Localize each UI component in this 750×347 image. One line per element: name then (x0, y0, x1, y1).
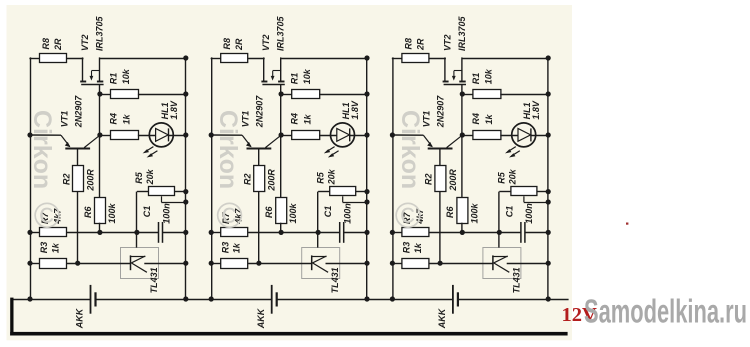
resistor R7 (block 3) (402, 228, 429, 237)
svg-text:R3: R3 (220, 242, 230, 254)
IC U1 TL431 cathode bar (block 1) (130, 255, 132, 270)
IC U1 TL431 package box (block 2) (302, 248, 340, 279)
node: R1-rail junction (block 3) (546, 91, 551, 96)
wire: left rail (block 3) (392, 57, 394, 299)
node: R6-reference net junction (block 1) (97, 230, 102, 235)
transistor VT1 base lead (block 3) (439, 149, 441, 166)
svg-text:2R: 2R (234, 38, 244, 51)
transistor VT1 emitter diagonal (block 2) (242, 135, 251, 146)
wire: left rail to R3 (block 1) (30, 263, 40, 265)
capacitor C1 left plate (block 1) (158, 222, 160, 243)
wire: TL431 reference lead (block 3) (498, 232, 500, 247)
resistor R8 (block 3) (402, 54, 429, 63)
capacitor C1 right plate (block 2) (343, 222, 345, 243)
wire: TL431 anode to right rail (block 2) (326, 263, 368, 265)
resistor R4 (block 2) (292, 131, 320, 140)
svg-text:©: © (216, 195, 243, 236)
node: R6-reference net junction (block 3) (460, 230, 465, 235)
wire: R6 bottom lead (block 3) (461, 223, 463, 233)
LED HL1 emission arrow 2 (block 1) (149, 151, 157, 156)
wire: R6 bottom lead (block 1) (99, 223, 101, 233)
node: left rail to bottom rail (block 3) (390, 296, 395, 301)
node: LED-rail junction (block 1) (183, 132, 188, 137)
LED HL1 emission arrow 1 (block 2) (326, 147, 334, 152)
svg-text:Cirkon: Cirkon (28, 110, 56, 189)
svg-text:100k: 100k (288, 202, 298, 223)
schematic sheet background (7, 5, 573, 340)
resistor R2 (block 2) (254, 166, 265, 192)
node: R5-rail junction (block 1) (183, 189, 188, 194)
node: rail-R7 junction (block 1) (27, 230, 32, 235)
transistor VT2 gate bar (block 3) (444, 84, 466, 86)
resistor R3 (block 3) (402, 259, 429, 269)
node: wiper-rail junction (block 3) (546, 199, 551, 204)
wire: R5 left lead horizontal (block 2) (318, 191, 330, 193)
wire: R8 to VT2 drain (block 1) (67, 58, 84, 60)
resistor R4 (block 3) (473, 131, 501, 140)
transistor VT1 emitter arrow (block 1) (65, 142, 71, 147)
svg-text:1.8V: 1.8V (169, 100, 179, 120)
node: R2-R3 junction (block 1) (75, 261, 80, 266)
svg-text:1k: 1k (303, 113, 313, 124)
LED HL1 circle (block 2) (331, 123, 355, 147)
IC U1 TL431 package box (block 1) (121, 248, 159, 279)
transistor VT2 drain lead (block 1) (82, 57, 84, 81)
node: rail-emitter junction (block 3) (390, 132, 395, 137)
svg-text:R4: R4 (109, 113, 119, 125)
node: R5-rail junction (block 3) (546, 189, 551, 194)
wire: R7 to C1 (reference net) (block 3) (429, 232, 521, 234)
wire: R8 to VT2 drain (block 2) (248, 58, 265, 60)
svg-text:1k: 1k (484, 113, 494, 124)
LED HL1 cathode bar (block 2) (349, 128, 351, 141)
wire: TL431 reference lead (block 1) (136, 232, 138, 247)
wire: C1 to right rail (block 1) (163, 232, 186, 234)
svg-text:TL431: TL431 (511, 267, 521, 293)
node: reference-R5 junction (block 1) (134, 230, 139, 235)
LED HL1 triangle (block 1) (156, 129, 169, 142)
node: R2-R3 junction (block 3) (438, 261, 443, 266)
svg-text:200R: 200R (448, 169, 458, 192)
transistor VT2 source lead upper (block 3) (461, 57, 463, 81)
wire: R4 to LED (block 2) (319, 135, 337, 137)
node: right rail to bottom rail (block 3) (546, 296, 551, 301)
resistor R6 (block 2) (276, 198, 287, 224)
IC U1 TL431 triangle (block 3) (492, 256, 507, 258)
wire: R1 to right rail (block 1) (138, 94, 186, 96)
node: LED-rail junction (block 2) (364, 132, 369, 137)
wire: R5 to right rail (block 2) (356, 191, 367, 193)
wire: R5 left lead horizontal (block 3) (499, 191, 511, 193)
wire: R3 net to TL431 cathode (block 3) (429, 263, 493, 265)
svg-text:R5: R5 (497, 171, 507, 183)
transistor VT2 source contact bar (block 2) (278, 81, 284, 83)
svg-text:100k: 100k (469, 202, 479, 223)
transistor VT1 emitter arrow (block 2) (246, 142, 252, 147)
resistor R7 (block 2) (221, 228, 248, 237)
wire: R2 to lower net (block 3) (439, 191, 441, 263)
trimmer resistor R5 (block 2) (330, 187, 356, 196)
node: reference-R5 junction (block 3) (497, 230, 502, 235)
svg-text:R4: R4 (471, 113, 481, 125)
svg-text:10k: 10k (121, 68, 131, 84)
thick frame bus bar (bottom horizontal) (10, 332, 567, 336)
wire: TL431 anode to right rail (block 3) (507, 263, 549, 265)
node: left rail to bottom rail (block 2) (209, 296, 214, 301)
wire: gate node to R1 (block 3) (462, 94, 473, 96)
wire: junction to R4 (block 1) (100, 135, 111, 137)
svg-text:TL431: TL431 (149, 267, 159, 293)
wire: LED to right rail (block 2) (350, 135, 367, 137)
node: anode-rail junction (block 3) (546, 261, 551, 266)
resistor R3 (block 2) (221, 259, 248, 269)
svg-text:Samodelkina.ru: Samodelkina.ru (584, 293, 747, 330)
svg-text:200R: 200R (86, 169, 96, 192)
LED HL1 triangle (block 3) (518, 129, 531, 142)
svg-text:R1: R1 (471, 73, 481, 85)
wire: R7 to C1 (reference net) (block 1) (67, 232, 159, 234)
wire: LED to right rail (block 1) (168, 135, 185, 137)
wire: gate node to R1 (block 1) (100, 94, 111, 96)
node: R1-rail junction (block 2) (364, 91, 369, 96)
svg-text:2N2907: 2N2907 (73, 95, 83, 129)
svg-text:2N2907: 2N2907 (436, 95, 446, 129)
capacitor C1 left plate (block 2) (339, 222, 341, 243)
wire: R5 wiper tap (block 2) (342, 196, 344, 202)
wire: R5 to right rail (block 3) (537, 191, 548, 193)
svg-text:AKK: AKK (437, 307, 447, 329)
LED HL1 cathode bar (block 1) (168, 128, 170, 141)
svg-text:20k: 20k (326, 168, 336, 185)
svg-text:R2: R2 (243, 173, 253, 185)
resistor R7 (block 1) (40, 228, 67, 237)
wire: LED to right rail (block 3) (531, 135, 548, 137)
LED HL1 emission arrow 2 (block 3) (512, 151, 520, 156)
transistor VT2 source lead upper (block 2) (280, 57, 282, 81)
battery AKK short plate (block 1) (94, 292, 96, 306)
node: C1-rail junction (block 3) (546, 230, 551, 235)
wire: R8 to VT2 drain (block 3) (429, 58, 446, 60)
wire: R2 to lower net (block 1) (77, 191, 79, 263)
node: reference-R5 junction (block 2) (316, 230, 321, 235)
svg-text:C1: C1 (323, 206, 333, 218)
capacitor C1 left plate (block 3) (520, 222, 522, 243)
resistor R8 (block 2) (221, 54, 248, 63)
svg-text:R8: R8 (403, 38, 413, 50)
wire: R5 wiper tap (block 3) (523, 196, 525, 202)
node: right rail to bottom rail (block 2) (364, 296, 369, 301)
wire: left rail to R7 (block 3) (392, 232, 402, 234)
svg-text:20k: 20k (508, 168, 518, 185)
IC U1 TL431 triangle (block 2) (311, 256, 326, 258)
node: R1-rail junction (block 1) (183, 91, 188, 96)
IC U1 TL431 cathode bar (block 2) (311, 255, 313, 270)
node: gate-R1 junction (block 1) (97, 91, 102, 96)
wire: R5 wiper tap (block 1) (161, 196, 163, 202)
wire: R2 to lower net (block 2) (258, 191, 260, 263)
IC U1 TL431 package box (block 3) (483, 248, 521, 279)
node: wiper-rail junction (block 1) (183, 199, 188, 204)
svg-text:2N2907: 2N2907 (255, 95, 265, 129)
node: R2-R3 junction (block 2) (256, 261, 261, 266)
capacitor C1 right plate (block 1) (162, 222, 164, 243)
svg-text:©: © (395, 195, 422, 236)
resistor R2 (block 1) (73, 166, 84, 192)
wire: R5 to right rail (block 1) (174, 191, 185, 193)
transistor VT2 gate bar (block 2) (262, 84, 284, 86)
svg-text:100n: 100n (524, 203, 534, 224)
svg-text:R8: R8 (222, 38, 232, 50)
wire: VT2 source to top right corner (block 3) (462, 58, 548, 60)
transistor VT2 substrate arrow (block 2) (273, 70, 282, 72)
wire: VT2 source to top right corner (block 2) (281, 58, 367, 60)
node: R5-rail junction (block 2) (364, 189, 369, 194)
wire: left rail to VT1 emitter (block 1) (30, 134, 61, 136)
svg-text:1.8V: 1.8V (350, 100, 360, 120)
wire: left rail to R3 (block 2) (211, 263, 221, 265)
svg-text:©: © (34, 195, 61, 236)
battery AKK long plate (block 1) (90, 285, 92, 314)
wire: R1 to right rail (block 3) (500, 94, 548, 96)
node: R6-reference net junction (block 2) (279, 230, 284, 235)
node: top right corner (block 1) (183, 55, 188, 60)
red registration dot (626, 223, 628, 225)
resistor R6 (block 1) (95, 198, 106, 224)
wire: left rail to VT1 emitter (block 2) (211, 134, 242, 136)
wire: right rail (block 3) (547, 58, 549, 299)
svg-text:1.8V: 1.8V (531, 100, 541, 120)
resistor R6 (block 3) (457, 198, 468, 224)
transistor VT2 drain lead (block 3) (444, 57, 446, 81)
transistor VT1 base lead (block 1) (77, 149, 79, 166)
transistor VT1 emitter diagonal (block 3) (423, 135, 432, 146)
wire: gate node vertical (block 2) (280, 84, 282, 197)
svg-text:R3: R3 (39, 242, 49, 254)
svg-text:R8: R8 (41, 38, 51, 50)
svg-text:100k: 100k (107, 202, 117, 223)
LED HL1 emission arrow 2 (block 2) (330, 151, 338, 156)
transistor VT1 base bar (block 1) (65, 148, 90, 150)
wire: R4 to LED (block 1) (138, 135, 156, 137)
transistor VT1 emitter arrow (block 3) (427, 142, 433, 147)
LED HL1 circle (block 3) (512, 123, 536, 147)
LED HL1 emission arrow 1 (block 3) (508, 147, 516, 152)
transistor VT2 substrate arrow (block 1) (91, 70, 100, 72)
node: rail-R3 junction (block 1) (27, 261, 32, 266)
transistor VT1 base lead (block 2) (258, 149, 260, 166)
transistor VT2 drain contact bar (block 2) (261, 81, 267, 83)
wire: junction to R4 (block 2) (281, 135, 292, 137)
wire: R1 to right rail (block 2) (319, 94, 367, 96)
wire: gate node vertical (block 1) (99, 84, 101, 197)
wire: right rail (block 1) (185, 58, 187, 299)
svg-text:R5: R5 (315, 171, 325, 183)
wire: VT2 source to top right corner (block 1) (100, 58, 186, 60)
transistor VT1 emitter diagonal (block 1) (61, 135, 70, 146)
wire: R5 left lead down (block 2) (317, 192, 319, 233)
resistor R8 (block 1) (40, 54, 67, 63)
transistor VT2 substrate arrow (block 3) (454, 70, 463, 72)
wire: left rail (block 2) (211, 57, 213, 299)
svg-text:R3: R3 (402, 242, 412, 254)
wire: junction to R4 (block 3) (462, 135, 473, 137)
wire: right rail (block 2) (366, 58, 368, 299)
wire: R3 net to TL431 cathode (block 1) (67, 263, 131, 265)
svg-text:200R: 200R (267, 169, 277, 192)
wire: R4 to LED (block 3) (500, 135, 518, 137)
transistor VT2 drain contact bar (block 1) (80, 81, 86, 83)
battery AKK short plate (block 3) (457, 292, 459, 306)
transistor VT1 base bar (block 2) (247, 148, 272, 150)
node: rail-emitter junction (block 1) (27, 132, 32, 137)
svg-text:VT2: VT2 (80, 34, 90, 51)
node: gate-R1 junction (block 3) (460, 91, 465, 96)
wire: left rail to R7 (block 1) (30, 232, 40, 234)
node: top right corner (block 2) (364, 55, 369, 60)
trimmer resistor R5 (block 3) (511, 187, 537, 196)
transistor VT1 collector diagonal (block 2) (265, 135, 281, 147)
node: anode-rail junction (block 2) (364, 261, 369, 266)
svg-text:VT1: VT1 (59, 111, 69, 128)
battery AKK long plate (block 2) (271, 285, 273, 314)
node: right rail to bottom rail (block 1) (183, 296, 188, 301)
svg-text:1k: 1k (122, 113, 132, 124)
svg-text:1k: 1k (51, 242, 61, 253)
resistor R1 (block 1) (111, 90, 139, 99)
svg-text:R2: R2 (61, 173, 71, 185)
resistor R1 (block 2) (292, 90, 320, 99)
wire: C1 to right rail (block 2) (344, 232, 367, 234)
svg-text:2R: 2R (415, 38, 425, 51)
capacitor C1 right plate (block 3) (524, 222, 526, 243)
LED HL1 circle (block 1) (149, 123, 173, 147)
svg-text:IRL3705: IRL3705 (95, 15, 105, 51)
transistor VT1 collector diagonal (block 1) (84, 135, 100, 147)
svg-text:10k: 10k (302, 68, 312, 84)
wire: R3 net to TL431 cathode (block 2) (248, 263, 312, 265)
wire: C1 to right rail (block 3) (525, 232, 548, 234)
node: gate-R1 junction (block 2) (279, 91, 284, 96)
node: rail-R3 junction (block 3) (390, 261, 395, 266)
transistor VT1 base bar (block 3) (428, 148, 453, 150)
node: wiper-rail junction (block 2) (364, 199, 369, 204)
resistor R4 (block 1) (111, 131, 139, 140)
svg-text:R4: R4 (290, 113, 300, 125)
transistor VT2 source contact bar (block 3) (459, 81, 465, 83)
node: rail-R3 junction (block 2) (209, 261, 214, 266)
svg-text:C1: C1 (504, 206, 514, 218)
wire: R5 left lead down (block 3) (498, 192, 500, 233)
svg-text:R6: R6 (264, 206, 274, 218)
svg-text:IRL3705: IRL3705 (276, 15, 286, 51)
node: C1-rail junction (block 2) (364, 230, 369, 235)
node: LED-rail junction (block 3) (546, 132, 551, 137)
node: anode-rail junction (block 1) (183, 261, 188, 266)
wire: top left to R8 (block 1) (29, 58, 40, 60)
wire: top left to R8 (block 2) (211, 58, 222, 60)
transistor VT2 source contact bar (block 1) (97, 81, 103, 83)
node: rail-R7 junction (block 3) (390, 230, 395, 235)
transistor VT1 collector diagonal (block 3) (447, 135, 463, 147)
svg-text:1k: 1k (232, 242, 242, 253)
svg-text:100n: 100n (343, 203, 353, 224)
svg-text:1k: 1k (413, 242, 423, 253)
node: top right corner (block 3) (546, 55, 551, 60)
battery AKK short plate (block 2) (276, 292, 278, 306)
IC U1 TL431 cathode bar (block 3) (492, 255, 494, 270)
wire: left rail (block 1) (30, 57, 32, 299)
svg-text:100n: 100n (162, 203, 172, 224)
wire: TL431 anode to right rail (block 1) (144, 263, 186, 265)
wire: R5 left lead down (block 1) (136, 192, 138, 233)
wire: bottom supply rail (13, 299, 91, 301)
node: rail-R7 junction (block 2) (209, 230, 214, 235)
svg-text:VT2: VT2 (261, 34, 271, 51)
wire: TL431 reference lead (block 2) (317, 232, 319, 247)
transistor VT2 source lead upper (block 1) (99, 57, 101, 81)
thick frame bus bar (left vertical) (10, 298, 13, 336)
svg-text:Cirkon: Cirkon (214, 110, 242, 189)
node: left rail to bottom rail (block 1) (27, 296, 32, 301)
svg-text:C1: C1 (142, 206, 152, 218)
transistor VT2 drain contact bar (block 3) (443, 81, 449, 83)
svg-text:R5: R5 (134, 171, 144, 183)
resistor R3 (block 1) (40, 259, 67, 269)
LED HL1 cathode bar (block 3) (530, 128, 532, 141)
wire: R6 bottom lead (block 2) (280, 223, 282, 233)
wire: left rail to VT1 emitter (block 3) (392, 134, 423, 136)
node: C1-rail junction (block 1) (183, 230, 188, 235)
node: rail-emitter junction (block 2) (209, 132, 214, 137)
svg-text:2R: 2R (53, 38, 63, 51)
svg-text:R6: R6 (445, 206, 455, 218)
wire: left rail to R3 (block 3) (392, 263, 402, 265)
node: gate-collector-R4 junction (block 3) (460, 132, 465, 137)
node: gate-collector-R4 junction (block 1) (97, 132, 102, 137)
wire: gate node to R1 (block 2) (281, 94, 292, 96)
LED HL1 triangle (block 2) (337, 129, 350, 142)
svg-text:AKK: AKK (256, 307, 266, 329)
trimmer resistor R5 (block 1) (149, 187, 175, 196)
svg-text:R1: R1 (290, 73, 300, 85)
IC U1 TL431 triangle (block 1) (130, 256, 145, 258)
svg-text:R1: R1 (109, 73, 119, 85)
svg-text:20k: 20k (145, 168, 155, 185)
node: gate-collector-R4 junction (block 2) (279, 132, 284, 137)
resistor R2 (block 3) (435, 166, 446, 192)
LED HL1 emission arrow 1 (block 1) (145, 147, 153, 152)
svg-text:VT2: VT2 (442, 34, 452, 51)
svg-text:IRL3705: IRL3705 (457, 15, 467, 51)
transistor VT2 drain lead (block 2) (263, 57, 265, 81)
transistor VT2 gate bar (block 1) (81, 84, 103, 86)
wire: top left to R8 (block 3) (392, 58, 403, 60)
svg-text:10k: 10k (483, 68, 493, 84)
svg-text:R6: R6 (83, 206, 93, 218)
svg-text:R2: R2 (424, 173, 434, 185)
svg-text:Cirkon: Cirkon (396, 110, 424, 189)
resistor R1 (block 3) (473, 90, 501, 99)
svg-text:AKK: AKK (75, 307, 85, 329)
wire: gate node vertical (block 3) (461, 84, 463, 197)
battery AKK long plate (block 3) (452, 285, 454, 314)
wire: R5 left lead horizontal (block 1) (137, 191, 149, 193)
wire: R7 to C1 (reference net) (block 2) (248, 232, 340, 234)
svg-text:TL431: TL431 (330, 267, 340, 293)
wire: left rail to R7 (block 2) (211, 232, 221, 234)
